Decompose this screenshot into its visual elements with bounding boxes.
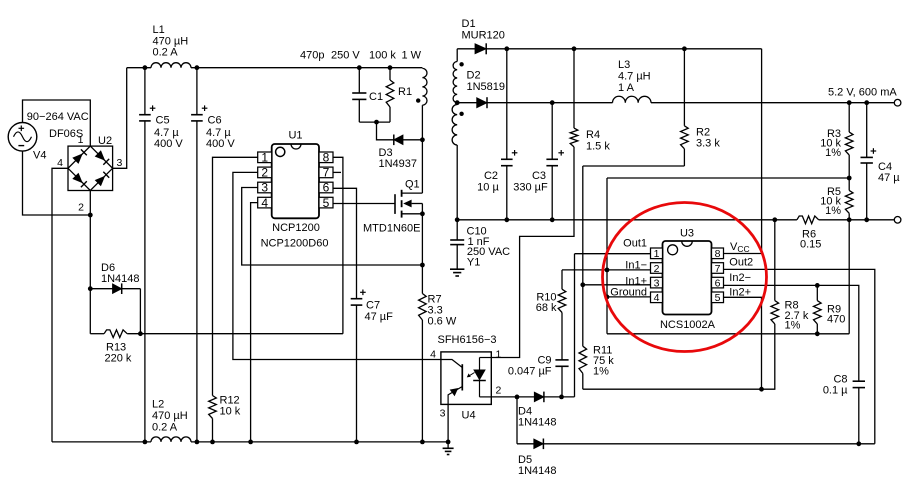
svg-text:400 V: 400 V xyxy=(154,138,183,150)
svg-text:10 k: 10 k xyxy=(220,406,241,418)
phase dot secondary lower xyxy=(459,112,463,116)
pin label Out1 xyxy=(623,237,647,249)
node xyxy=(143,440,148,445)
pin 1 label of U4 xyxy=(496,349,502,361)
svg-text:47 µ: 47 µ xyxy=(878,172,900,184)
node xyxy=(847,217,852,222)
svg-text:U2: U2 xyxy=(98,135,112,147)
svg-text:4.7 µ: 4.7 µ xyxy=(206,127,231,139)
wire xyxy=(491,396,517,398)
svg-text:0.15: 0.15 xyxy=(800,239,821,251)
svg-text:0.6 W: 0.6 W xyxy=(428,316,457,328)
pin 2 label of U2 xyxy=(78,202,84,214)
svg-text:0.2 A: 0.2 A xyxy=(152,422,178,434)
wire In2+ xyxy=(724,297,762,389)
node xyxy=(559,395,564,400)
phase dot primary xyxy=(416,98,420,102)
node xyxy=(580,282,585,287)
node xyxy=(138,331,143,336)
wire output xyxy=(651,102,894,104)
svg-text:C5: C5 xyxy=(156,115,170,127)
svg-text:2: 2 xyxy=(78,202,84,214)
wire xyxy=(421,214,423,442)
svg-text:4: 4 xyxy=(57,157,63,169)
svg-text:7: 7 xyxy=(323,166,330,180)
wire HV run xyxy=(127,333,343,335)
wire In2- xyxy=(724,285,859,381)
node xyxy=(420,440,425,445)
node Q1 source xyxy=(420,211,425,216)
wire output ground rail xyxy=(457,219,894,221)
node xyxy=(682,46,687,51)
svg-text:4.7 µH: 4.7 µH xyxy=(618,71,651,83)
svg-text:3: 3 xyxy=(654,277,660,289)
resistor R6 xyxy=(797,216,822,251)
node xyxy=(446,440,451,445)
diode D1 xyxy=(462,18,505,54)
svg-text:6: 6 xyxy=(323,181,330,195)
svg-text:1: 1 xyxy=(654,248,660,260)
wire U1 pin2 to optocoupler xyxy=(233,172,441,359)
capacitor C4 xyxy=(861,103,901,220)
inductor L1 xyxy=(151,24,191,68)
svg-text:V4: V4 xyxy=(33,150,46,162)
svg-text:NCP1200: NCP1200 xyxy=(272,222,320,234)
svg-text:U3: U3 xyxy=(680,227,694,239)
svg-text:1: 1 xyxy=(78,134,84,146)
node xyxy=(420,137,425,142)
wire U1 pin6 Vcc to C7 xyxy=(333,188,356,298)
pin 2 label of U4 xyxy=(496,385,502,397)
svg-text:SFH6156−3: SFH6156−3 xyxy=(438,334,497,346)
diode D5 xyxy=(518,439,875,478)
svg-text:4: 4 xyxy=(430,349,436,361)
wire xyxy=(23,100,91,146)
label 90-264 VAC xyxy=(27,111,89,123)
svg-text:400 V: 400 V xyxy=(206,138,235,150)
node xyxy=(357,65,362,70)
node xyxy=(388,65,393,70)
ground xyxy=(450,269,464,276)
svg-text:47 µF: 47 µF xyxy=(365,311,394,323)
wire feedback xyxy=(607,178,849,334)
wire U1 pin7 stub xyxy=(333,171,341,173)
transistor Q1 xyxy=(333,179,422,235)
pin label In1- xyxy=(625,260,647,272)
transformer secondary lower winding xyxy=(452,103,457,220)
node feedback tap xyxy=(847,176,852,181)
pin label Vcc xyxy=(730,241,750,254)
wire xyxy=(517,397,534,444)
node xyxy=(550,100,555,105)
svg-text:C1: C1 xyxy=(369,91,383,103)
svg-text:1 A: 1 A xyxy=(618,82,635,94)
svg-text:1: 1 xyxy=(261,151,268,165)
capacitor C10 xyxy=(450,220,510,269)
svg-text:1N5819: 1N5819 xyxy=(467,81,506,93)
svg-text:R1: R1 xyxy=(398,86,412,98)
wire R13 left xyxy=(90,333,104,335)
value label 470p 250 V xyxy=(300,50,360,62)
resistor R12 xyxy=(209,395,241,442)
svg-text:0.047 µF: 0.047 µF xyxy=(508,366,552,378)
svg-text:Q1: Q1 xyxy=(405,179,420,191)
pin label In2+ xyxy=(729,287,751,299)
svg-text:L3: L3 xyxy=(618,59,630,71)
wire xyxy=(113,68,127,169)
resistor R8 xyxy=(771,220,809,389)
svg-text:1: 1 xyxy=(496,349,502,361)
svg-text:2: 2 xyxy=(261,166,268,180)
capacitor C7 xyxy=(351,290,393,442)
capacitor C2 xyxy=(477,49,517,220)
node xyxy=(195,440,200,445)
transformer secondary upper winding xyxy=(453,49,457,103)
resistor R7 xyxy=(419,294,457,328)
label 5.2 V, 600 mA xyxy=(828,86,897,98)
wire U1 pin4 to ground rail xyxy=(251,203,258,442)
svg-text:1N4148: 1N4148 xyxy=(101,273,140,285)
node xyxy=(143,65,148,70)
wire xyxy=(447,404,449,442)
node xyxy=(815,283,820,288)
wire Out1 xyxy=(575,253,651,255)
svg-text:L2: L2 xyxy=(152,399,164,411)
svg-text:90−264 VAC: 90−264 VAC xyxy=(27,111,89,123)
capacitor C6 xyxy=(191,68,235,442)
node xyxy=(210,440,215,445)
capacitor C5 xyxy=(139,68,183,442)
resistor R1 xyxy=(386,68,412,122)
wire xyxy=(23,151,91,215)
svg-text:470 µH: 470 µH xyxy=(152,410,188,422)
wire rectified rail xyxy=(486,48,761,50)
node xyxy=(354,440,359,445)
wire bottom rail xyxy=(52,441,448,443)
resistor R3 xyxy=(820,103,853,191)
wire U1 pin1 to R12 xyxy=(213,157,258,395)
node xyxy=(504,46,509,51)
wire In1- xyxy=(562,269,651,271)
svg-text:3: 3 xyxy=(117,157,123,169)
pin 4 label of U2 xyxy=(57,157,63,169)
pin 1 label of U2 xyxy=(78,134,84,146)
inductor L3 xyxy=(613,59,652,103)
node xyxy=(864,100,869,105)
node xyxy=(772,217,777,222)
wire xyxy=(491,147,574,358)
node xyxy=(864,217,869,222)
wire U1 pin8 HV xyxy=(333,157,343,333)
svg-text:68 k: 68 k xyxy=(536,302,557,314)
svg-text:D1: D1 xyxy=(462,18,476,30)
svg-text:5: 5 xyxy=(715,292,721,304)
node CS sense xyxy=(420,263,425,268)
svg-text:8: 8 xyxy=(323,151,330,165)
svg-text:C3: C3 xyxy=(532,170,546,182)
optocoupler U4 SFH6156-3 xyxy=(438,334,497,421)
svg-text:3: 3 xyxy=(440,408,446,420)
svg-text:MTD1N60E: MTD1N60E xyxy=(363,223,420,235)
ground xyxy=(443,442,454,455)
wire Out2 xyxy=(724,269,875,443)
svg-text:C6: C6 xyxy=(208,115,222,127)
wire xyxy=(457,48,475,50)
svg-text:5: 5 xyxy=(323,196,330,210)
svg-text:1%: 1% xyxy=(825,147,841,159)
svg-text:NCS1002A: NCS1002A xyxy=(660,319,716,331)
wire xyxy=(89,191,91,334)
svg-text:C7: C7 xyxy=(366,300,380,312)
pin 3 label of U4 xyxy=(440,408,446,420)
wire R11 bottom run xyxy=(583,388,776,390)
diode D2 xyxy=(467,70,506,109)
svg-text:1.5 k: 1.5 k xyxy=(586,141,610,153)
bridge rectifier U2 xyxy=(68,135,113,191)
resistor R9 xyxy=(814,285,846,333)
svg-text:0.2 A: 0.2 A xyxy=(153,47,179,59)
node xyxy=(605,295,610,300)
node xyxy=(550,217,555,222)
resistor R2 xyxy=(681,49,721,166)
wire Vcc to rectified rail xyxy=(724,49,762,254)
capacitor C3 xyxy=(513,103,564,220)
svg-text:250 V: 250 V xyxy=(331,50,360,62)
resistor R5 xyxy=(820,186,853,220)
terminal - output xyxy=(894,217,901,224)
svg-text:1%: 1% xyxy=(825,205,841,217)
wire xyxy=(377,122,394,140)
node bridge pin 2 xyxy=(88,213,93,218)
svg-text:MUR120: MUR120 xyxy=(462,30,505,42)
svg-text:3: 3 xyxy=(261,181,268,195)
node xyxy=(759,387,764,392)
node centre tap xyxy=(455,100,460,105)
svg-text:U1: U1 xyxy=(288,130,302,142)
diode D4 xyxy=(517,392,575,429)
node xyxy=(88,286,93,291)
pin label In1+ xyxy=(625,275,647,287)
node xyxy=(815,331,820,336)
svg-text:Out1: Out1 xyxy=(623,237,647,249)
pin label Out2 xyxy=(729,257,753,269)
svg-text:2: 2 xyxy=(496,385,502,397)
value label 100 k 1 W xyxy=(369,50,422,62)
wire Out1 to D4 xyxy=(574,254,576,397)
svg-text:C2: C2 xyxy=(484,170,498,182)
wire xyxy=(359,121,390,123)
wire top rail xyxy=(127,67,423,69)
capacitor C9 xyxy=(508,355,569,397)
svg-text:100 k: 100 k xyxy=(369,50,396,62)
svg-text:3.3 k: 3.3 k xyxy=(696,138,720,150)
wire xyxy=(421,105,423,193)
svg-text:1%: 1% xyxy=(593,366,609,378)
wire R2 bottom xyxy=(583,165,685,167)
svg-text:1N4148: 1N4148 xyxy=(518,465,557,477)
inductor L2 xyxy=(151,399,191,442)
resistor R4 xyxy=(570,49,610,153)
pin 4 label of U4 xyxy=(430,349,436,361)
wire xyxy=(90,288,112,290)
diode D6 xyxy=(101,262,140,294)
svg-text:330 µF: 330 µF xyxy=(513,181,548,193)
svg-text:220 k: 220 k xyxy=(105,353,132,365)
pin label In2- xyxy=(729,272,751,284)
svg-text:1 W: 1 W xyxy=(402,50,422,62)
svg-text:4: 4 xyxy=(261,196,268,210)
svg-text:6: 6 xyxy=(715,277,721,289)
svg-text:Y1: Y1 xyxy=(467,257,480,269)
pin 3 label of U2 xyxy=(117,157,123,169)
capacitor C8 xyxy=(823,374,865,444)
capacitor C1 xyxy=(352,68,383,122)
wire xyxy=(139,289,141,334)
node xyxy=(515,395,520,400)
wire xyxy=(848,220,850,334)
wire xyxy=(52,168,68,442)
wire xyxy=(457,102,477,104)
op-amp U3 NCS1002A xyxy=(651,227,724,330)
svg-text:4: 4 xyxy=(654,292,660,304)
svg-text:8: 8 xyxy=(715,248,721,260)
svg-text:Out2: Out2 xyxy=(729,257,753,269)
svg-text:R4: R4 xyxy=(586,129,600,141)
node xyxy=(248,440,253,445)
node xyxy=(374,120,379,125)
wire sense return xyxy=(607,333,849,335)
svg-text:470p: 470p xyxy=(300,50,324,62)
node xyxy=(504,217,509,222)
svg-text:U4: U4 xyxy=(462,409,476,421)
svg-text:10 µ: 10 µ xyxy=(477,181,499,193)
svg-text:4.7 µ: 4.7 µ xyxy=(154,127,179,139)
ac source V4 xyxy=(8,123,46,162)
terminal + output xyxy=(894,99,901,106)
node xyxy=(605,268,610,273)
resistor R11 xyxy=(579,166,614,389)
svg-text:In2−: In2− xyxy=(729,272,751,284)
svg-text:In1+: In1+ xyxy=(625,275,647,287)
resistor R13 xyxy=(104,330,132,365)
node xyxy=(572,46,577,51)
label DF06S xyxy=(49,128,83,140)
node xyxy=(455,217,460,222)
pin label Ground xyxy=(610,287,647,299)
highlight ellipse around U3 xyxy=(603,203,767,352)
svg-text:1N4148: 1N4148 xyxy=(518,417,557,429)
svg-text:5.2 V, 600 mA: 5.2 V, 600 mA xyxy=(828,86,897,98)
diode D3 xyxy=(379,135,423,171)
op-amp U1 NCP1200 xyxy=(258,130,333,250)
wire U1 pin3 to current sense xyxy=(242,188,423,266)
svg-text:470: 470 xyxy=(827,314,845,326)
svg-text:NCP1200D60: NCP1200D60 xyxy=(261,238,329,250)
wire xyxy=(487,102,613,104)
svg-text:L1: L1 xyxy=(153,24,165,36)
svg-text:1N4937: 1N4937 xyxy=(379,158,418,170)
svg-text:D2: D2 xyxy=(467,70,481,82)
svg-text:2: 2 xyxy=(654,263,660,275)
transformer primary winding xyxy=(422,68,427,105)
wire Ground pin4 xyxy=(607,296,651,298)
wire In1+ xyxy=(583,284,651,286)
phase dot secondary upper xyxy=(459,62,463,66)
node xyxy=(856,441,861,446)
node xyxy=(847,100,852,105)
node xyxy=(195,65,200,70)
svg-text:0.1 µ: 0.1 µ xyxy=(823,385,848,397)
resistor R10 xyxy=(536,270,566,360)
svg-text:7: 7 xyxy=(715,263,721,275)
svg-text:1%: 1% xyxy=(785,320,801,332)
